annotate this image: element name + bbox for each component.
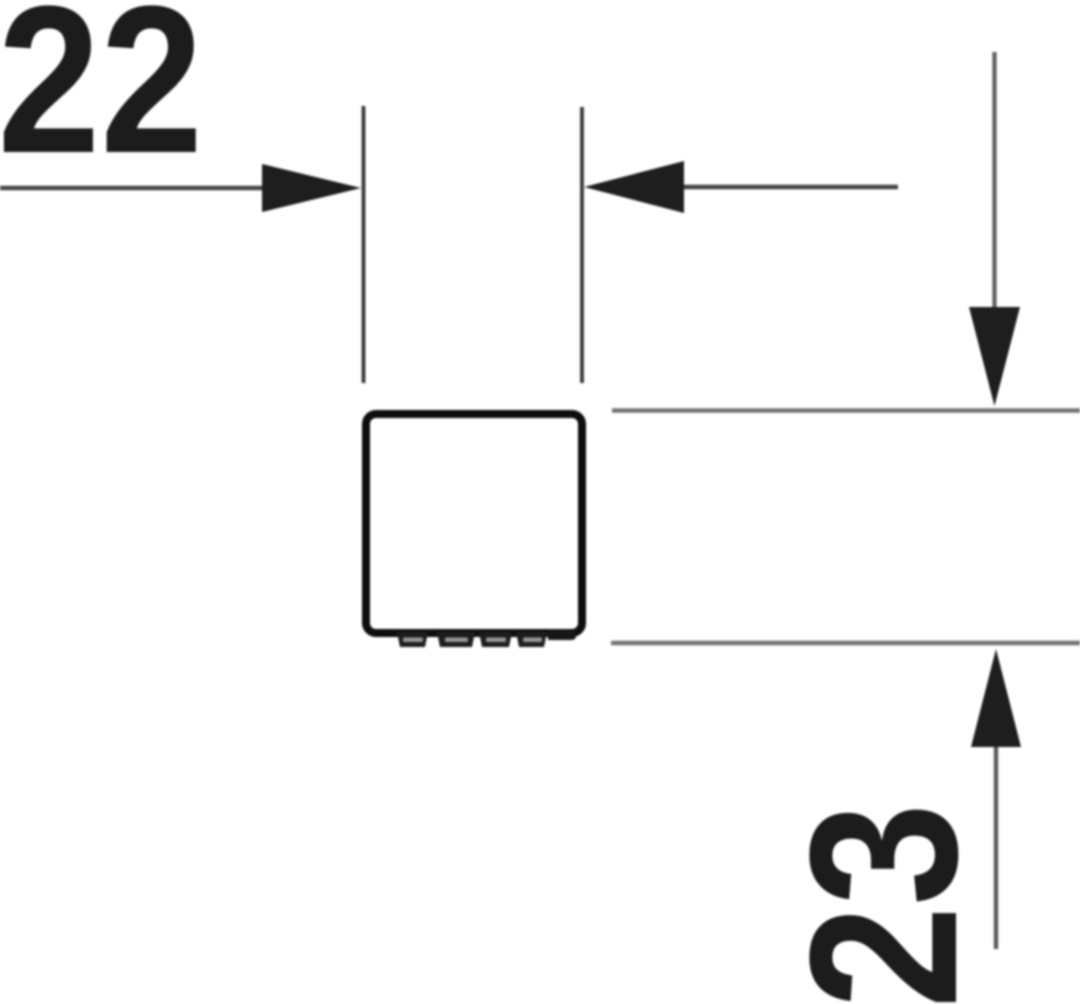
svg-text:22: 22 bbox=[0, 0, 203, 197]
svg-text:23: 23 bbox=[766, 803, 1001, 1004]
